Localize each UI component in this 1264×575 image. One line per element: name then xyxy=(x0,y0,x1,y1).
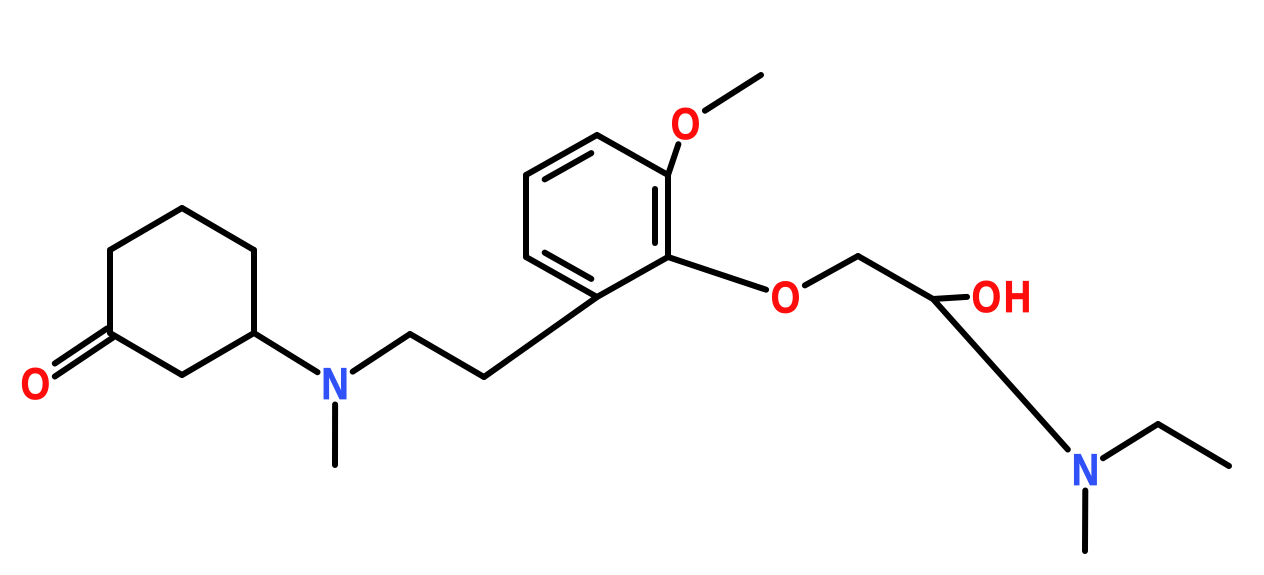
benzene edge bottom-right xyxy=(597,257,668,297)
ring bond C1-C2 xyxy=(107,250,113,333)
methoxy CH3 bond xyxy=(705,75,761,111)
benzene edge bottom-left (double) xyxy=(526,257,597,297)
svg-text:H: H xyxy=(1004,272,1031,322)
bond CH2-CH2 xyxy=(410,334,484,377)
svg-text:N: N xyxy=(1072,445,1099,495)
bond C5-N1 xyxy=(254,333,318,372)
ring bond C3-C4 xyxy=(182,208,254,250)
ring bond C4-C5 xyxy=(251,250,257,333)
ring bond C2-C3 xyxy=(110,208,182,250)
svg-text:O: O xyxy=(771,272,800,322)
bond CH2-benzene xyxy=(484,297,597,377)
bond N1-CH2 xyxy=(353,334,410,372)
svg-text:O: O xyxy=(21,359,50,409)
benzene edge top-right xyxy=(597,135,668,175)
bond ring-O3 xyxy=(668,257,766,290)
bond ring-O2 xyxy=(668,144,678,175)
bond C-OH xyxy=(933,297,967,299)
ketone C=O double bond xyxy=(55,338,113,377)
ethyl CH3 bond xyxy=(1158,424,1229,466)
svg-text:N: N xyxy=(321,359,348,409)
N1 methyl bond xyxy=(332,405,338,466)
svg-text:O: O xyxy=(671,99,700,149)
bond O3-CH2 xyxy=(805,256,858,285)
ring bond C6-C1 xyxy=(110,333,182,375)
benzene edge left xyxy=(523,175,529,257)
bond N2-CH2(ethyl) xyxy=(1103,424,1158,458)
benzene edge top-left (double) xyxy=(526,135,597,175)
N2 methyl bond xyxy=(1082,491,1088,552)
bond CH(OH)-CH2-N2 xyxy=(933,299,1068,450)
svg-text:O: O xyxy=(972,272,1001,322)
ring bond C5-C6 xyxy=(182,333,254,375)
bond CH2-CH(OH) xyxy=(858,256,933,299)
benzene edge right (double) xyxy=(665,175,671,257)
